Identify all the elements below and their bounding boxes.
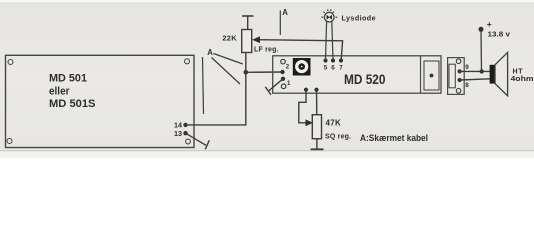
svg-text:MD 501: MD 501 bbox=[49, 73, 87, 85]
DIN jack center disc bbox=[298, 63, 305, 70]
wire left pin to SQ wiper bbox=[299, 90, 308, 123]
mounting hole top-right bbox=[185, 59, 190, 64]
MD520 bottom pin dot right bbox=[314, 88, 318, 92]
wire pin8 to speaker bbox=[460, 79, 490, 80]
pin 6 dot bbox=[331, 58, 335, 62]
svg-text:+: + bbox=[487, 19, 492, 29]
DIN jack center pin bbox=[301, 66, 303, 68]
svg-text:SQ reg.: SQ reg. bbox=[325, 134, 351, 141]
svg-text:A: A bbox=[282, 8, 288, 17]
wire wiper to pin 7 bbox=[259, 40, 343, 60]
ground bar bbox=[311, 148, 324, 150]
wire right pin to 47K top bbox=[316, 90, 318, 115]
wire junction to MD520 input bbox=[246, 71, 283, 73]
pin 7 dot bbox=[339, 58, 343, 62]
svg-text:MD 520: MD 520 bbox=[344, 72, 386, 87]
LED leg left bbox=[326, 22, 327, 61]
pin 8 dot bbox=[458, 78, 462, 82]
wire junction to supply bbox=[480, 30, 483, 72]
pin 5 dot bbox=[323, 58, 327, 62]
terminal bar above 22K bbox=[242, 15, 254, 17]
potentiometer 47K body bbox=[312, 115, 321, 139]
svg-text:13: 13 bbox=[174, 129, 182, 138]
wire pin14 to 22K pot bottom bbox=[186, 53, 246, 125]
connector hole top bbox=[456, 59, 461, 64]
svg-text:13.8 v: 13.8 v bbox=[488, 29, 511, 38]
pin 9 dot bbox=[458, 69, 462, 73]
svg-text:5: 5 bbox=[324, 65, 328, 72]
svg-text:Lysdiode: Lysdiode bbox=[342, 13, 376, 22]
LED Lysdiode circle bbox=[324, 12, 334, 22]
input wire dot bbox=[280, 70, 284, 74]
leader line A down to plug bbox=[203, 57, 204, 114]
svg-text:6: 6 bbox=[331, 65, 335, 72]
internal module dot bbox=[430, 74, 434, 78]
svg-text:4ohm: 4ohm bbox=[511, 76, 534, 83]
leader line A to upper wire bbox=[214, 54, 243, 65]
svg-text:A: A bbox=[207, 48, 213, 57]
connector hole bottom bbox=[456, 89, 461, 94]
internal module box bbox=[424, 61, 439, 90]
speaker driver bbox=[490, 65, 495, 84]
block MD501 bbox=[6, 55, 195, 147]
plug switch arm at pin 13 bbox=[186, 133, 207, 145]
switch arm dot bbox=[281, 77, 285, 81]
wiper arrow of 22K bbox=[252, 36, 260, 43]
svg-text:A:Skærmet kabel: A:Skærmet kabel bbox=[360, 133, 428, 143]
plug switch arm at MD520 bbox=[268, 79, 283, 92]
potentiometer 22K body bbox=[242, 30, 252, 53]
svg-text:47K: 47K bbox=[326, 118, 342, 127]
internal divider bbox=[420, 56, 422, 93]
mounting hole top-left bbox=[8, 60, 13, 65]
connector box at MD520 right bbox=[448, 58, 465, 95]
svg-text:eller: eller bbox=[49, 86, 70, 98]
speaker cone bbox=[495, 52, 508, 95]
svg-text:2: 2 bbox=[286, 64, 290, 71]
mounting hole bottom-left bbox=[7, 139, 12, 144]
DIN jack ring bbox=[295, 60, 308, 73]
pin 1 circle bbox=[281, 84, 286, 89]
MD520 bottom pin dot left bbox=[304, 88, 308, 92]
wire 47K to ground bbox=[316, 139, 318, 150]
open contact circle at MD501 bbox=[186, 139, 191, 144]
LED leg right bbox=[332, 22, 333, 61]
svg-text:MD 501S: MD 501S bbox=[49, 98, 96, 110]
connector inner bar bbox=[449, 64, 455, 88]
supply junction dot bbox=[480, 69, 484, 73]
block MD520 bbox=[273, 56, 441, 93]
wiper arrow of 47K bbox=[306, 119, 314, 126]
pin 13 dot bbox=[183, 131, 187, 135]
LED chip symbol bbox=[327, 15, 330, 20]
plug tip bar at MD520 bbox=[265, 87, 271, 95]
wire bar to 22K top bbox=[247, 16, 249, 30]
supply node dot bbox=[479, 27, 484, 32]
plug tip bar at pin 13 bbox=[205, 140, 209, 149]
LED rays bbox=[321, 9, 337, 17]
pin 14 dot bbox=[183, 123, 187, 127]
svg-text:LF reg.: LF reg. bbox=[254, 47, 279, 54]
svg-text:HT: HT bbox=[513, 69, 524, 76]
svg-text:22K: 22K bbox=[222, 34, 237, 43]
junction node on 22K wire bbox=[244, 70, 249, 75]
svg-text:7: 7 bbox=[339, 65, 343, 72]
leader line A to lower wire bbox=[212, 58, 241, 85]
svg-text:8: 8 bbox=[465, 82, 469, 89]
leader line from top A to wire bbox=[279, 11, 281, 36]
svg-text:9: 9 bbox=[465, 64, 469, 71]
wire pin9 to speaker bbox=[460, 70, 490, 72]
DIN jack black square bbox=[293, 58, 311, 76]
pin 2 circle bbox=[281, 59, 286, 64]
page top edge shadow bbox=[0, 3, 534, 4]
page bottom edge bbox=[0, 150, 534, 151]
paper background bbox=[0, 0, 534, 158]
